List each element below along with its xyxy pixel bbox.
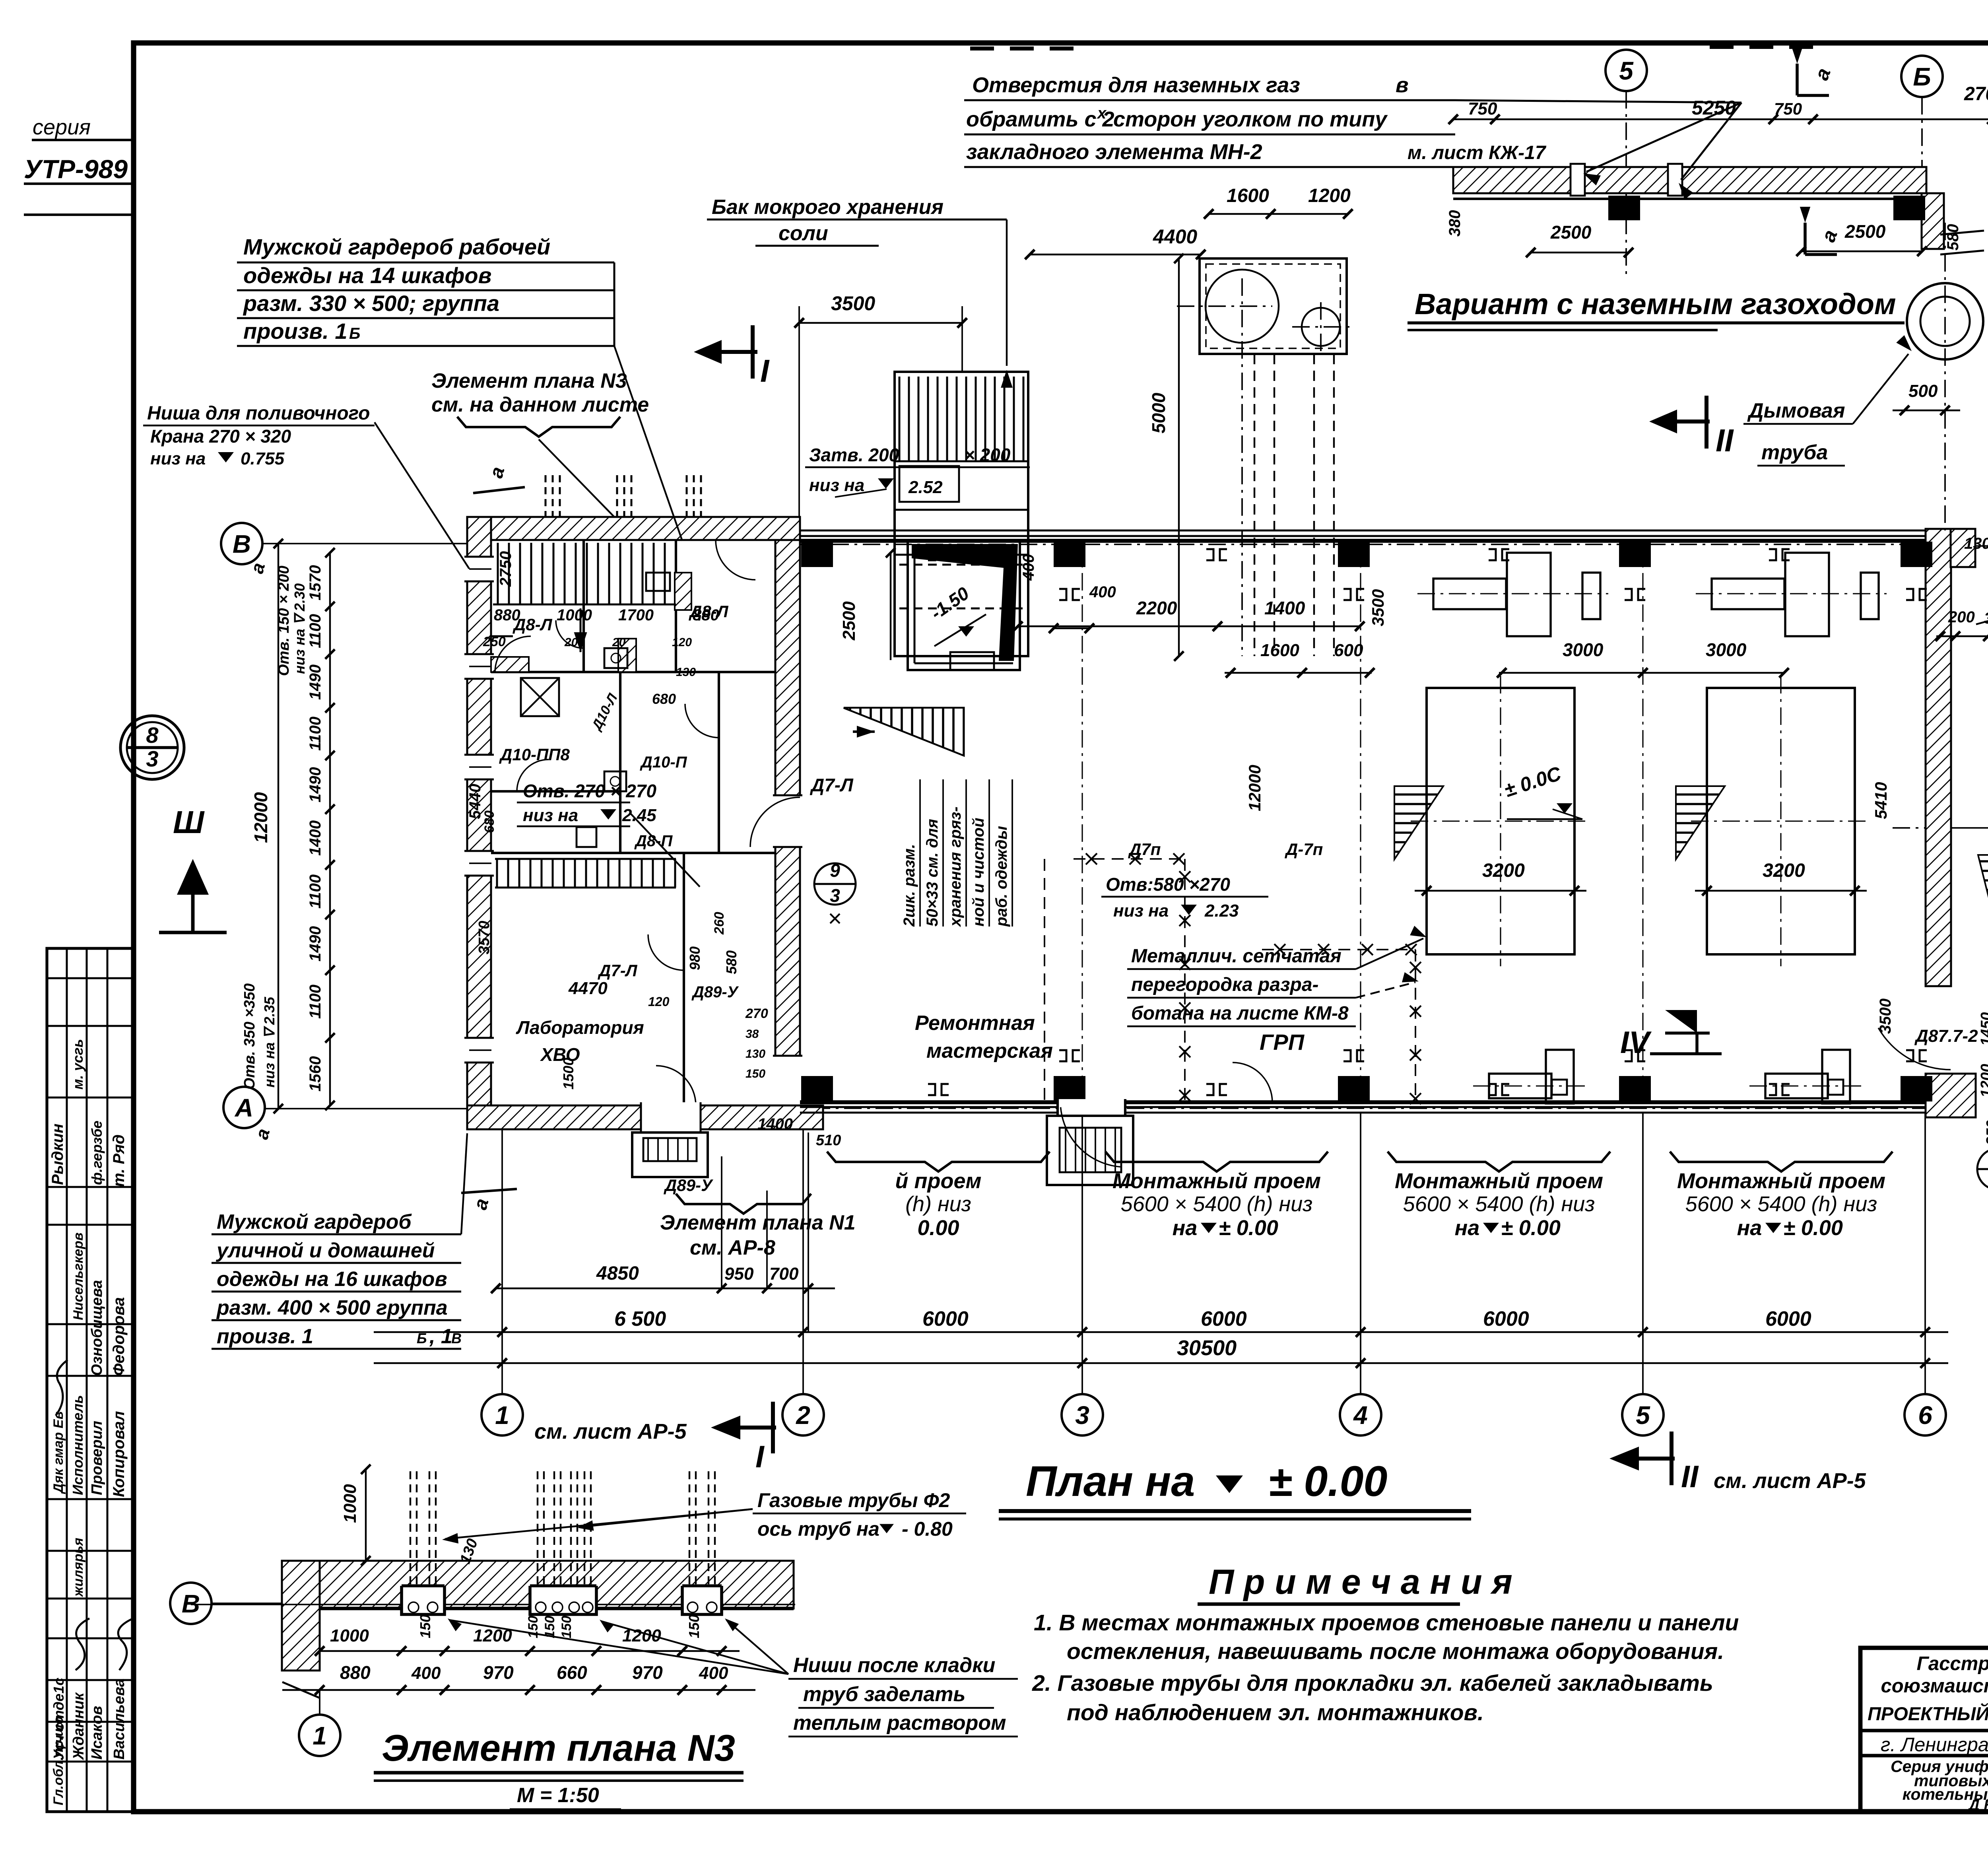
svg-text:1450: 1450 [1978,1012,1988,1046]
svg-text:2.23: 2.23 [1204,901,1239,921]
svg-text:5600 × 5400 (h) низ: 5600 × 5400 (h) низ [1685,1192,1877,1216]
svg-text:Монтажный проем: Монтажный проем [1677,1169,1885,1193]
svg-text:Д87.7-2: Д87.7-2 [1914,1026,1978,1046]
svg-text:Металлич. сетчатая: Металлич. сетчатая [1131,946,1342,967]
svg-text:ной и чистой: ной и чистой [970,818,987,927]
svg-text:5600 × 5400 (h) низ: 5600 × 5400 (h) низ [1121,1192,1313,1216]
svg-text:1700: 1700 [618,606,654,624]
svg-text:Ниша для поливочного: Ниша для поливочного [147,403,370,424]
svg-text:низ на: низ на [523,806,578,825]
svg-text:мастерская: мастерская [926,1039,1053,1063]
svg-text:М = 1:50: М = 1:50 [517,1784,599,1807]
svg-text:2: 2 [796,1401,810,1430]
svg-text:сторон уголком по типу: сторон уголком по типу [1113,107,1388,131]
svg-text:2500: 2500 [839,601,859,641]
svg-text:Д-7п: Д-7п [1285,840,1323,859]
svg-text:Отв. 150 × 200: Отв. 150 × 200 [276,565,292,676]
svg-text:разм. 330 × 500; группа: разм. 330 × 500; группа [243,291,499,316]
svg-text:500: 500 [1908,381,1938,401]
svg-text:1400: 1400 [757,1115,793,1133]
svg-text:Д7-Л: Д7-Л [810,775,854,795]
svg-text:й проем: й проем [895,1169,982,1193]
svg-text:соли: соли [779,222,828,245]
svg-text:5: 5 [1619,56,1634,85]
svg-text:под наблюдением эл. монтажни: под наблюдением эл. монтажников. [1067,1700,1484,1725]
svg-text:труб заделать: труб заделать [803,1683,965,1706]
svg-text:1000: 1000 [330,1626,369,1645]
svg-text:УТР-989: УТР-989 [24,154,128,184]
svg-text:1. В местах монтажных прое: 1. В местах монтажных проемов стеновые п… [1034,1610,1739,1636]
svg-text:200: 200 [1948,608,1975,626]
svg-text:1: 1 [495,1401,509,1430]
svg-text:750: 750 [1468,99,1497,118]
svg-text:Отв. 350 ×350: Отв. 350 ×350 [241,983,258,1090]
svg-text:3000: 3000 [1563,639,1604,660]
svg-text:Лаборатория: Лаборатория [516,1017,644,1038]
svg-text:8: 8 [146,723,159,748]
svg-text:Крана 270 × 320: Крана 270 × 320 [150,426,291,447]
svg-text:Жданник: Жданник [70,1692,87,1760]
svg-text:120: 120 [648,995,670,1009]
svg-text:Д89-У: Д89-У [691,983,739,1001]
svg-text:ф.герзбе: ф.герзбе [89,1121,105,1185]
svg-text:IV: IV [1620,1025,1652,1060]
svg-text:а: а [485,464,509,480]
svg-text:4400: 4400 [1153,225,1197,248]
svg-text:580: 580 [723,950,740,974]
svg-text:а: а [1810,65,1835,83]
svg-text:Отверстия для наземных газ: Отверстия для наземных газ [972,73,1300,97]
svg-text:т. Ряд: т. Ряд [110,1134,128,1187]
svg-text:3000: 3000 [1706,639,1747,660]
svg-text:на: на [1173,1216,1198,1240]
svg-text:3500: 3500 [1369,589,1387,626]
svg-text:150: 150 [745,1067,765,1080]
svg-text:1570: 1570 [307,565,324,600]
svg-text:3200: 3200 [1482,860,1525,881]
svg-text:3200: 3200 [1763,860,1805,881]
svg-text:ось труб на: ось труб на [757,1518,879,1540]
svg-text:700: 700 [769,1264,799,1284]
svg-text:Дяк гмар Ев: Дяк гмар Ев [51,1411,66,1494]
svg-text:1490: 1490 [307,926,324,962]
svg-text:произв. 1: произв. 1 [243,319,348,344]
svg-text:2500: 2500 [1844,221,1886,242]
svg-text:12000: 12000 [1245,765,1264,811]
svg-text:- 0.80: - 0.80 [902,1518,953,1540]
svg-text:± 0.00: ± 0.00 [1268,1457,1387,1505]
svg-text:Мужской гардероб рабочей: Мужской гардероб рабочей [243,234,550,259]
svg-text:а: а [246,560,269,575]
svg-text:одежды на 14 шкафов: одежды на 14 шкафов [243,263,491,288]
svg-text:Б: Б [349,325,360,342]
svg-text:1600: 1600 [1260,641,1299,660]
svg-text:закладного элемента МН-2: закладного элемента МН-2 [966,140,1262,164]
svg-text:союзмашстройпроект: союзмашстройпроект [1881,1675,1988,1697]
svg-text:1200: 1200 [1308,185,1351,206]
svg-text:м. лист КЖ-17: м. лист КЖ-17 [1408,142,1547,163]
svg-text:Рыдкин: Рыдкин [49,1124,66,1185]
svg-text:150: 150 [686,1614,702,1638]
svg-text:400: 400 [699,1663,728,1683]
svg-text:в: в [1396,73,1409,97]
svg-text:± 0.00: ± 0.00 [1501,1216,1561,1240]
svg-text:Д7п: Д7п [1128,840,1161,859]
svg-text:теплым раствором: теплым раствором [793,1711,1006,1735]
svg-text:2шк. разм.: 2шк. разм. [901,844,918,927]
svg-text:9: 9 [830,860,840,881]
svg-text:Усч стде1с: Усч стде1с [50,1678,67,1760]
svg-text:Отв. 270 × 270: Отв. 270 × 270 [523,781,656,801]
svg-text:Газовые трубы Ф2: Газовые трубы Ф2 [757,1489,950,1511]
svg-text:1400: 1400 [1264,598,1305,618]
svg-text:разм. 400 × 500 группа: разм. 400 × 500 группа [216,1296,448,1319]
svg-text:± 0.0С: ± 0.0С [1501,762,1564,802]
svg-text:1560: 1560 [307,1056,324,1092]
svg-text:см. на данном листе: см. на данном листе [431,393,649,416]
svg-text:1: 1 [313,1721,327,1750]
svg-text:г. Ленинград: г. Ленинград [1881,1734,1988,1756]
svg-text:130: 130 [745,1047,765,1061]
svg-text:Нисельгкерв: Нисельгкерв [71,1233,86,1321]
svg-text:обрамить с 2: обрамить с 2 [966,107,1114,131]
svg-text:Копировал: Копировал [110,1411,128,1497]
svg-text:остекления, навешивать после: остекления, навешивать после монтажа обо… [1067,1639,1724,1664]
svg-text:880: 880 [340,1662,371,1683]
svg-text:950: 950 [724,1264,754,1284]
svg-text:труба: труба [1761,441,1828,464]
svg-text:1600: 1600 [1227,185,1269,206]
svg-text:Федорова: Федорова [110,1297,128,1376]
svg-text:970: 970 [632,1662,663,1683]
svg-text:уличной и домашней: уличной и домашней [215,1239,435,1262]
svg-text:II: II [1716,423,1734,458]
svg-text:250: 250 [483,634,506,649]
svg-text:130: 130 [1964,535,1988,552]
svg-text:1100: 1100 [307,717,324,751]
svg-text:30500: 30500 [1177,1336,1237,1360]
svg-text:Исаков: Исаков [89,1706,105,1760]
svg-text:Д10-П: Д10-П [640,754,687,771]
svg-text:120: 120 [672,636,692,649]
svg-text:, 1: , 1 [429,1325,452,1348]
svg-text:Мужской гардероб: Мужской гардероб [217,1210,412,1233]
svg-text:низ на: низ на [809,476,864,495]
svg-text:± 0.00: ± 0.00 [1783,1216,1843,1240]
svg-text:50×33 см. для: 50×33 см. для [924,819,941,927]
svg-text:580: 580 [1944,224,1962,251]
svg-text:1500: 1500 [560,1058,577,1090]
svg-text:510: 510 [816,1132,841,1149]
svg-text:А: А [234,1094,253,1122]
svg-text:Д7-Л: Д7-Л [598,961,638,980]
svg-text:В: В [451,1330,462,1346]
svg-text:м. усгь: м. усгь [70,1039,86,1090]
svg-text:Затв. 200: Затв. 200 [809,445,899,465]
svg-text:3: 3 [1075,1401,1089,1430]
svg-text:Гасстрой СССР: Гасстрой СССР [1916,1653,1988,1674]
svg-text:600: 600 [1334,641,1363,660]
svg-text:Бак мокрого хранения: Бак мокрого хранения [712,196,944,219]
svg-text:произв. 1: произв. 1 [217,1325,313,1348]
svg-text:980: 980 [687,946,703,970]
svg-text:см. АР-8: см. АР-8 [690,1236,775,1259]
svg-text:1100: 1100 [307,874,324,909]
svg-text:3570: 3570 [476,921,493,954]
svg-text:3: 3 [146,746,158,771]
svg-text:270: 270 [745,1006,768,1021]
svg-text:3500: 3500 [1877,998,1894,1034]
svg-text:одежды на 16 шкафов: одежды на 16 шкафов [217,1268,447,1291]
svg-text:680: 680 [652,691,676,707]
svg-text:Элемент плана N3: Элемент плана N3 [382,1727,735,1769]
svg-text:Васильева: Васильева [111,1678,128,1760]
svg-text:2500: 2500 [1550,222,1592,243]
svg-text:а: а [1817,227,1842,245]
svg-text:4: 4 [1353,1401,1368,1430]
svg-text:В: В [233,530,251,558]
svg-text:I: I [755,1439,765,1474]
svg-text:П р и м е ч а н и я: П р и м е ч а н и я [1209,1562,1512,1601]
svg-text:Монтажный проем: Монтажный проем [1395,1169,1603,1193]
svg-text:4850: 4850 [596,1263,639,1284]
svg-text:680: 680 [482,810,497,833]
svg-text:раб. одежды: раб. одежды [993,826,1010,927]
svg-text:1100: 1100 [307,614,324,648]
svg-text:400: 400 [411,1663,441,1683]
svg-text:см. лист АР-5: см. лист АР-5 [1714,1469,1866,1493]
svg-text:1400: 1400 [307,820,324,856]
svg-text:I: I [760,353,770,388]
svg-text:6: 6 [1918,1401,1932,1430]
svg-text:Монтажный проем: Монтажный проем [1112,1169,1321,1193]
svg-text:низ на ∇ 2.35: низ на ∇ 2.35 [261,996,278,1088]
svg-text:2. Газовые трубы для прокл: 2. Газовые трубы для прокладки эл. кабел… [1032,1671,1713,1696]
svg-text:5440: 5440 [466,784,484,819]
svg-text:150: 150 [417,1614,433,1638]
svg-text:Проверил: Проверил [89,1421,105,1495]
svg-text:Элемент плана N3: Элемент плана N3 [431,369,627,392]
svg-text:4470: 4470 [568,979,608,998]
svg-text:5: 5 [1636,1401,1650,1430]
svg-text:Б: Б [1913,62,1931,91]
svg-text:2705: 2705 [1964,84,1988,105]
svg-text:Ознобищева: Ознобищева [89,1280,105,1376]
svg-text:Отв:580 ×270: Отв:580 ×270 [1106,874,1230,895]
svg-text:В: В [182,1589,200,1618]
svg-text:380: 380 [1446,210,1464,237]
svg-text:1000: 1000 [340,1484,360,1523]
svg-text:низ на: низ на [1113,901,1169,921]
svg-text:Ремонтная: Ремонтная [915,1012,1035,1035]
svg-text:6000: 6000 [1765,1307,1811,1331]
svg-text:Исполнитель: Исполнитель [70,1395,86,1495]
svg-text:ПРОЕКТНЫЙ ИНСТИТУТ N1: ПРОЕКТНЫЙ ИНСТИТУТ N1 [1868,1703,1988,1724]
svg-text:12000: 12000 [250,792,271,843]
svg-text:ГРП: ГРП [1260,1030,1305,1055]
svg-text:0.00: 0.00 [917,1216,959,1240]
svg-text:20: 20 [612,636,626,649]
svg-text:1200: 1200 [1978,1064,1988,1097]
svg-text:20: 20 [564,636,578,649]
svg-text:6000: 6000 [1201,1307,1247,1331]
svg-text:х: х [1097,105,1107,122]
svg-text:низ на: низ на [150,449,206,468]
svg-text:3: 3 [830,885,840,906]
svg-text:× 200: × 200 [964,445,1011,465]
svg-text:1000: 1000 [557,606,592,624]
svg-text:Ш: Ш [173,804,205,840]
svg-text:970: 970 [483,1662,514,1683]
svg-text:Вариант с наземным газоходом: Вариант с наземным газоходом [1415,287,1896,321]
svg-text:Д89-У: Д89-У [664,1176,714,1195]
svg-text:± 0.00: ± 0.00 [1219,1216,1278,1240]
svg-text:130: 130 [676,666,696,679]
svg-text:1490: 1490 [307,664,324,700]
svg-text:250: 250 [1984,1120,1988,1146]
svg-text:Элемент плана N1: Элемент плана N1 [660,1211,856,1234]
svg-text:2.52: 2.52 [908,478,943,497]
svg-text:1100: 1100 [307,985,324,1019]
svg-text:II: II [1681,1459,1699,1494]
svg-text:380: 380 [1984,610,1988,627]
svg-text:на: на [1737,1216,1762,1240]
svg-text:5410: 5410 [1872,782,1890,819]
svg-text:260: 260 [712,912,727,935]
svg-text:2750: 2750 [497,551,514,587]
svg-text:Ниши после кладки: Ниши после кладки [793,1654,995,1677]
svg-text:6000: 6000 [922,1307,969,1331]
svg-text:6 500: 6 500 [614,1307,666,1331]
svg-text:(h) низ: (h) низ [905,1192,971,1216]
svg-text:см. лист АР-5: см. лист АР-5 [534,1420,687,1443]
svg-text:на: на [1455,1216,1480,1240]
svg-text:Дымовая: Дымовая [1747,399,1845,422]
svg-text:1490: 1490 [307,767,324,802]
svg-text:6000: 6000 [1483,1307,1529,1331]
svg-text:серия: серия [33,115,91,139]
svg-text:400: 400 [1089,583,1116,601]
svg-text:План на: План на [1026,1457,1195,1505]
svg-text:Д8-П: Д8-П [634,832,673,850]
svg-text:низ на ∇ 2.30: низ на ∇ 2.30 [291,583,308,674]
svg-text:жилярья: жилярья [71,1538,86,1597]
svg-text:Б: Б [417,1330,427,1346]
svg-text:а: а [470,1196,493,1212]
svg-text:а: а [251,1126,274,1141]
svg-text:5600 × 5400 (h) низ: 5600 × 5400 (h) низ [1403,1192,1595,1216]
svg-text:0.755: 0.755 [241,449,285,468]
svg-text:перегородка разра-: перегородка разра- [1131,974,1319,995]
svg-text:-1.50: -1.50 [927,583,973,624]
svg-text:660: 660 [557,1662,587,1683]
svg-text:3500: 3500 [831,292,875,315]
svg-text:Д К В Р: Д К В Р [1967,1797,1988,1814]
svg-text:2200: 2200 [1136,598,1177,618]
svg-text:880: 880 [494,606,520,624]
svg-text:ботана на листе КМ-8: ботана на листе КМ-8 [1131,1003,1349,1024]
svg-text:хранения гряз-: хранения гряз- [947,806,964,927]
svg-text:Д10-Л: Д10-Л [588,691,621,734]
svg-text:880: 880 [693,606,719,624]
svg-text:Д10-ПП8: Д10-ПП8 [499,745,570,764]
svg-text:150: 150 [559,1616,574,1638]
svg-text:5000: 5000 [1148,392,1169,433]
svg-text:38: 38 [745,1028,759,1041]
